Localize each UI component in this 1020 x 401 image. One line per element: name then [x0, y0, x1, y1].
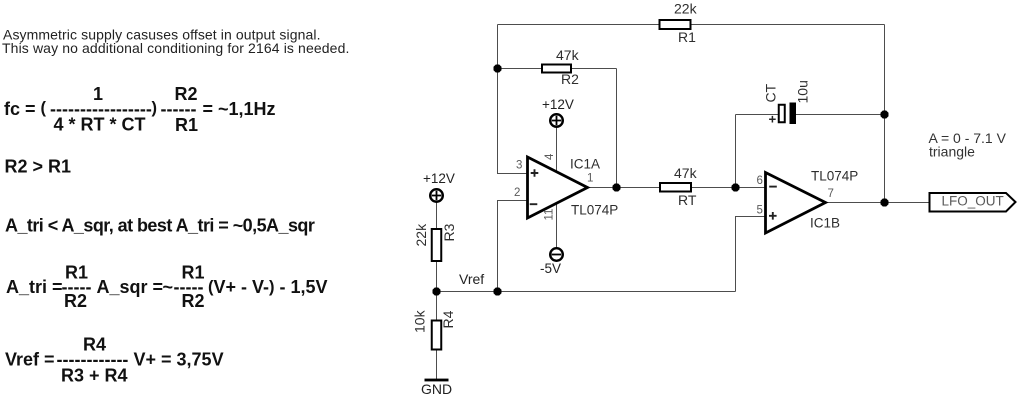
svg-text:LFO_OUT: LFO_OUT	[942, 194, 1004, 209]
svg-text:R2: R2	[64, 291, 87, 311]
svg-text:22k: 22k	[674, 1, 698, 17]
svg-text:10k: 10k	[412, 309, 428, 333]
capacitor CT positive plate	[779, 105, 785, 123]
svg-text:47k: 47k	[556, 47, 580, 63]
svg-text:R4: R4	[440, 310, 456, 328]
svg-text:CT: CT	[763, 83, 779, 102]
svg-text:A_tri < A_sqr, at best A_tri =: A_tri < A_sqr, at best A_tri = ~0,5A_sqr	[5, 216, 315, 236]
supply -5V at IC1A pin11	[540, 248, 563, 276]
op-amp IC1B inverting input minus sign	[769, 186, 777, 188]
resistor R3 body	[432, 229, 442, 261]
ground GND	[421, 379, 452, 397]
supply symbol circle	[550, 114, 563, 127]
output flag LFO_OUT	[930, 193, 1016, 212]
supply symbol minus sign	[552, 254, 561, 256]
wire Vref horizontal	[437, 291, 736, 293]
svg-text:fc =: fc =	[4, 99, 36, 119]
op-amp IC1B	[757, 169, 859, 234]
svg-text:= ~1,1Hz: = ~1,1Hz	[203, 99, 276, 119]
svg-text:4 * RT * CT: 4 * RT * CT	[54, 115, 146, 135]
resistor R1	[660, 1, 698, 46]
svg-text:(: (	[41, 99, 47, 117]
svg-text:1: 1	[587, 173, 593, 185]
svg-text:+12V: +12V	[423, 171, 455, 186]
capacitor CT	[763, 80, 811, 124]
wire left vertical to pin3	[498, 25, 528, 174]
svg-text:10u: 10u	[795, 80, 811, 103]
junction node at Vref R3 R4	[433, 288, 441, 296]
svg-text:TL074P: TL074P	[811, 169, 858, 184]
resistor R4 body	[432, 321, 442, 350]
svg-text:V+ = 3,75V: V+ = 3,75V	[134, 350, 224, 370]
svg-text:IC1A: IC1A	[570, 157, 600, 172]
svg-text:11: 11	[544, 209, 556, 221]
resistor R2	[542, 47, 580, 87]
supply symbol circle	[550, 248, 563, 261]
svg-text:A_tri =: A_tri =	[6, 277, 63, 297]
wire top feedback net	[498, 24, 885, 26]
wire R4 branch	[436, 292, 438, 380]
svg-text:(V+ - V-) - 1,5V: (V+ - V-) - 1,5V	[208, 277, 328, 297]
resistor R2 body	[542, 65, 571, 73]
resistor R3	[413, 223, 457, 261]
op-amp IC1A inverting input minus sign	[530, 203, 538, 205]
op-amp IC1B triangle body	[766, 173, 826, 234]
svg-text:3: 3	[516, 160, 522, 172]
supply symbol plus sign	[432, 191, 441, 200]
svg-text:R2: R2	[182, 291, 205, 311]
svg-text:R2 > R1: R2 > R1	[5, 157, 72, 177]
supply symbol circle	[430, 189, 443, 202]
svg-text:47k: 47k	[674, 165, 698, 181]
ground bar symbol	[425, 379, 449, 382]
svg-text:GND: GND	[421, 381, 452, 397]
wire IC1B output	[826, 202, 930, 204]
svg-text:-5V: -5V	[540, 261, 561, 276]
svg-text:R3 + R4: R3 + R4	[61, 366, 128, 386]
wire capacitor branch vertical	[735, 115, 737, 188]
wire R3 branch	[436, 203, 438, 292]
wire IC1B pin5 to Vref	[736, 217, 766, 292]
svg-text:IC1B: IC1B	[810, 216, 840, 231]
supply symbol plus sign	[552, 116, 561, 125]
supply +12V at R3	[423, 171, 455, 202]
svg-text:triangle: triangle	[929, 144, 975, 160]
svg-text:R2: R2	[561, 71, 579, 87]
svg-text:22k: 22k	[413, 223, 429, 247]
wire R2 branch vertical	[616, 69, 618, 188]
wire IC1A pin11 supply	[556, 203, 558, 249]
capacitor CT polarity plus sign	[769, 116, 776, 123]
resistor RT	[660, 165, 698, 208]
svg-text:R1: R1	[175, 115, 198, 135]
junction node at IC1B output	[881, 199, 889, 207]
svg-text:5: 5	[757, 205, 763, 217]
wire IC1A output to IC1B pin6	[588, 187, 766, 189]
op-amp IC1A non-inverting input plus sign	[531, 169, 539, 177]
supply +12V at IC1A pin4	[542, 97, 574, 127]
op-amp IC1B non-inverting input plus sign	[769, 212, 777, 220]
wire capacitor branch horizontal	[736, 114, 885, 116]
svg-text:A_sqr =: A_sqr =	[97, 277, 164, 297]
resistor RT body	[660, 183, 691, 192]
junction node at cap to right rail	[881, 111, 889, 119]
svg-text:6: 6	[757, 175, 763, 187]
svg-text:Vref: Vref	[459, 271, 484, 287]
op-amp IC1A triangle body	[528, 157, 588, 218]
resistor R4	[412, 309, 457, 349]
svg-text:Vref =: Vref =	[5, 350, 55, 370]
junction node at IC1A output	[613, 184, 621, 192]
svg-text:2: 2	[514, 187, 520, 199]
wire right vertical net	[884, 25, 886, 203]
svg-text:R1: R1	[678, 29, 696, 45]
output flag outline	[930, 193, 1016, 212]
resistor R1 body	[660, 20, 691, 29]
capacitor CT negative plate	[790, 103, 797, 125]
junction node at IC1B pin6	[732, 184, 740, 192]
junction node at R2 tap	[494, 65, 502, 73]
op-amp IC1A	[514, 153, 618, 221]
svg-text:~: ~	[163, 277, 174, 297]
wire IC1A pin2 to Vref	[498, 201, 528, 292]
svg-text:R3: R3	[441, 223, 457, 241]
svg-text:7: 7	[828, 188, 834, 200]
svg-text:4: 4	[544, 153, 556, 160]
svg-text:+12V: +12V	[542, 97, 574, 112]
wire R2 branch horizontal	[498, 68, 617, 70]
svg-text:TL074P: TL074P	[571, 203, 618, 218]
wire IC1A pin4 supply	[556, 128, 558, 174]
svg-text:RT: RT	[678, 192, 697, 208]
svg-text:): )	[152, 99, 158, 117]
junction node at Vref pin2	[494, 288, 502, 296]
svg-text:This way no additional conditi: This way no additional conditioning for …	[2, 40, 350, 56]
